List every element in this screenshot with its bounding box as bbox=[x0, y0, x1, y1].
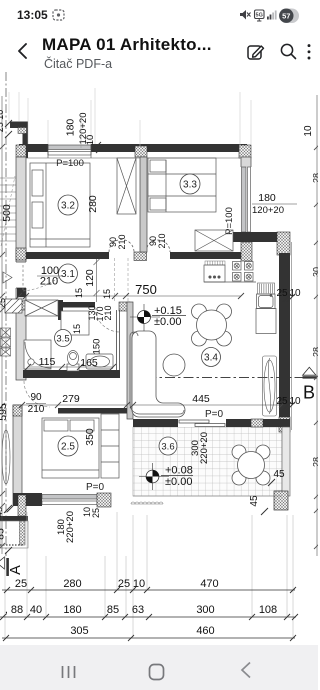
section marker A bbox=[0, 557, 24, 576]
terrace bottom scallop strip bbox=[131, 502, 163, 504]
top-left entry wall corner bbox=[10, 122, 28, 129]
left wall hatch mid bbox=[16, 248, 26, 260]
wall stub at wardrobe bbox=[58, 300, 63, 320]
kitchen dishwasher bbox=[204, 265, 225, 282]
porch dotted bottom bbox=[0, 544, 23, 546]
entry door arc bbox=[23, 266, 71, 291]
stair direction arrow bbox=[3, 272, 12, 283]
kitchen sink bbox=[257, 294, 276, 309]
terrace table and chairs bbox=[232, 445, 270, 485]
svg-text:3.5: 3.5 bbox=[56, 334, 69, 345]
terrace bottom edge bbox=[133, 495, 282, 497]
svg-text:45: 45 bbox=[273, 469, 285, 480]
dimension 25 10 kitchen wall bbox=[276, 288, 301, 302]
dimension 25 10 living wall bbox=[276, 396, 301, 410]
stair dashed diagonal bbox=[1, 176, 15, 246]
wardrobe room 3.3 bbox=[195, 230, 233, 251]
entry door leaf block bbox=[17, 288, 26, 297]
svg-text:108: 108 bbox=[259, 604, 277, 616]
room circle 3.6 bbox=[159, 437, 177, 455]
battery bbox=[279, 9, 299, 24]
terrace door sliding panels bbox=[178, 419, 226, 427]
svg-text:28: 28 bbox=[312, 347, 319, 357]
svg-text:P=0: P=0 bbox=[86, 482, 105, 493]
dark block 2.5 bottom left bbox=[24, 493, 40, 506]
wardrobe corridor bbox=[25, 300, 58, 316]
svg-text:B: B bbox=[303, 383, 315, 403]
room circle 3.3 bbox=[180, 174, 200, 194]
bed room 2.5 bbox=[42, 418, 99, 478]
hatch block right wall bottom bbox=[279, 417, 290, 432]
corridor vertical dim line bbox=[94, 259, 100, 302]
svg-text:210: 210 bbox=[103, 305, 113, 320]
section line A-A vertical bbox=[5, 72, 7, 556]
app bar bbox=[0, 28, 318, 70]
svg-text:A: A bbox=[8, 565, 24, 575]
door arc room 3.3 bbox=[146, 240, 170, 252]
bed room 3.3 bbox=[148, 158, 216, 212]
kitchen counter lower bbox=[256, 309, 276, 334]
hatch block top wall right corner bbox=[239, 145, 251, 158]
hatch block terrace top wall bbox=[251, 419, 263, 427]
hatch block terrace bottom right bbox=[274, 491, 288, 510]
hatch block 2.5 bottom corner bbox=[97, 493, 111, 507]
svg-text:300: 300 bbox=[196, 604, 214, 616]
left wall bottom hatch bbox=[18, 495, 26, 516]
svg-text:+0.08: +0.08 bbox=[165, 465, 193, 477]
svg-text:±0.00: ±0.00 bbox=[165, 476, 192, 488]
top extension lines bbox=[9, 88, 251, 146]
terrace 3.6 tiled floor bbox=[133, 427, 282, 496]
living room west wall bbox=[127, 302, 133, 419]
svg-text:28: 28 bbox=[312, 457, 319, 467]
svg-text:63: 63 bbox=[132, 604, 144, 616]
dimension 279 hall bbox=[19, 402, 130, 408]
dimension 115 165 bathroom bbox=[25, 364, 116, 370]
room 2.5 top wall bbox=[58, 408, 127, 414]
svg-text:180: 180 bbox=[65, 119, 77, 137]
shower bathroom bbox=[24, 340, 51, 369]
svg-text:57: 57 bbox=[282, 11, 290, 20]
level marker terrace bbox=[139, 463, 193, 490]
bathroom right wall bbox=[117, 310, 120, 370]
svg-text:3.3: 3.3 bbox=[183, 180, 197, 191]
svg-text:460: 460 bbox=[196, 625, 214, 637]
svg-text:10: 10 bbox=[133, 578, 145, 590]
room circle 3.2 bbox=[58, 195, 78, 215]
svg-text:120+20: 120+20 bbox=[252, 205, 284, 216]
svg-text:305: 305 bbox=[70, 625, 88, 637]
svg-text:10: 10 bbox=[303, 125, 314, 137]
level marker living room bbox=[130, 304, 186, 331]
couch living room bbox=[130, 331, 185, 417]
door opening room 3.2 bbox=[109, 251, 134, 260]
svg-text:, 88: , 88 bbox=[5, 604, 23, 616]
wardrobe room 2.5 bbox=[101, 414, 119, 478]
corridor opening dashed lines bbox=[115, 258, 129, 302]
hatch block between doors bbox=[134, 252, 147, 261]
washbasin bbox=[86, 354, 113, 369]
step hatch right of room 3.3 bbox=[241, 242, 252, 261]
svg-text:280: 280 bbox=[63, 578, 81, 590]
svg-text:120: 120 bbox=[84, 269, 96, 287]
mailbox squares bbox=[1, 328, 11, 356]
svg-text:470: 470 bbox=[200, 578, 218, 590]
room circle 3.1 bbox=[59, 264, 78, 283]
svg-text:10: 10 bbox=[85, 135, 96, 146]
dining table bbox=[192, 304, 232, 346]
bathroom bottom wall bbox=[23, 370, 120, 378]
svg-text:28: 28 bbox=[312, 173, 319, 183]
svg-text:45: 45 bbox=[249, 495, 260, 507]
room circle 3.5 bbox=[55, 330, 72, 347]
door arc room 3.2 bbox=[109, 240, 134, 252]
kitchen stove burners bbox=[233, 262, 254, 282]
svg-text:150: 150 bbox=[92, 339, 103, 355]
window room 3.2 in top wall bbox=[48, 144, 91, 158]
svg-text:3.6: 3.6 bbox=[161, 442, 174, 453]
svg-text:3.2: 3.2 bbox=[61, 201, 75, 212]
bottom extension lines bbox=[5, 512, 293, 637]
svg-text:85: 85 bbox=[107, 604, 119, 616]
left wall lower hatch top bbox=[13, 405, 22, 416]
kitchen counter edge bbox=[204, 281, 256, 283]
bedroom bottom wall bbox=[26, 252, 241, 259]
hatch block top wall middle bbox=[135, 146, 147, 157]
radiator plant right wall bbox=[263, 356, 277, 416]
kitchen sink drainer bbox=[258, 283, 275, 294]
door opening room 3.3 bbox=[146, 251, 170, 260]
svg-text:220+20: 220+20 bbox=[65, 511, 76, 543]
window room 2.5 bottom wall bbox=[42, 493, 97, 506]
svg-text:25: 25 bbox=[91, 508, 101, 518]
bottom dimension row 3 bbox=[2, 635, 296, 641]
svg-text:25 10: 25 10 bbox=[0, 110, 5, 133]
room circle 3.4 bbox=[202, 348, 221, 367]
hall door arc to living room bbox=[95, 307, 120, 332]
right edge dimension line bbox=[314, 95, 320, 556]
svg-text:P=100: P=100 bbox=[224, 207, 235, 235]
window room 3.3 right wall bbox=[240, 167, 252, 232]
wardrobe room 3.2 bbox=[117, 158, 136, 214]
bottom dimension row 2 bbox=[0, 614, 298, 620]
svg-text:210: 210 bbox=[28, 404, 45, 415]
status bar bbox=[0, 0, 318, 28]
dimension 45 terrace right bbox=[268, 469, 285, 486]
porch hatched strip bbox=[20, 521, 26, 545]
muted icon bbox=[240, 10, 251, 20]
hatch block kitchen top right corner bbox=[277, 232, 290, 255]
room circle 2.5 bbox=[58, 436, 78, 456]
svg-text:40: 40 bbox=[30, 604, 42, 616]
svg-text:210: 210 bbox=[117, 234, 127, 249]
left exterior wall bbox=[16, 157, 26, 380]
svg-text:210: 210 bbox=[40, 276, 58, 288]
kitchen top wall bbox=[233, 232, 290, 242]
washing machine bathroom bbox=[61, 311, 89, 335]
room 2.5 bottom wall bbox=[13, 493, 111, 506]
svg-text:15: 15 bbox=[72, 324, 82, 334]
left wall lower part bbox=[13, 405, 22, 505]
corridor bottom wall left part bbox=[58, 302, 95, 308]
bottom-left porch outline bbox=[0, 521, 28, 548]
svg-text:595: 595 bbox=[0, 403, 9, 421]
right wall living room bbox=[279, 253, 290, 430]
main top wall bbox=[19, 144, 247, 152]
svg-text:25: 25 bbox=[118, 578, 130, 590]
svg-text:90: 90 bbox=[30, 392, 42, 403]
svg-text:25: 25 bbox=[15, 578, 27, 590]
svg-text:5G: 5G bbox=[256, 13, 263, 19]
svg-text:180: 180 bbox=[258, 192, 276, 204]
navigation bar bbox=[0, 645, 318, 690]
side table circle bbox=[163, 354, 185, 376]
terrace top wall bbox=[133, 419, 290, 427]
signal bars bbox=[267, 11, 277, 20]
svg-text:P=100: P=100 bbox=[56, 158, 84, 169]
left margin plant ellipse bbox=[2, 430, 10, 484]
dimension 445 living bbox=[130, 402, 285, 408]
right wall room 3.3 bbox=[241, 157, 251, 235]
svg-text:±0.00: ±0.00 bbox=[154, 316, 181, 328]
dimension 750 corridor bbox=[16, 293, 244, 299]
svg-text:279: 279 bbox=[62, 393, 80, 405]
section marker B bbox=[303, 367, 318, 402]
svg-text:210: 210 bbox=[157, 233, 167, 248]
door arc room 2.5 bbox=[24, 381, 50, 407]
left wall entry door opening bbox=[15, 262, 27, 288]
staircase treads bbox=[0, 178, 16, 241]
entry door leaf bbox=[22, 265, 24, 291]
hatched ramp bar upper bbox=[5, 299, 22, 313]
dimension 45 terrace bottom rotated bbox=[249, 495, 268, 515]
svg-text:180: 180 bbox=[63, 604, 81, 616]
svg-text:280: 280 bbox=[87, 195, 99, 213]
svg-text:115: 115 bbox=[39, 356, 56, 368]
tick marks left bottom bbox=[4, 504, 15, 554]
bottom dimension row 1 bbox=[2, 587, 296, 593]
svg-text:25: 25 bbox=[276, 288, 288, 299]
kitchen drainer strip bbox=[205, 261, 225, 265]
svg-text:25: 25 bbox=[276, 396, 288, 407]
left outer dimension line bbox=[0, 96, 5, 554]
svg-text:165: 165 bbox=[80, 357, 98, 369]
wall between rooms 3.2 and 3.3 bbox=[140, 157, 147, 252]
right edge cropped labels bbox=[312, 173, 320, 467]
volte icon bbox=[255, 10, 265, 21]
svg-text:2.5: 2.5 bbox=[61, 442, 75, 453]
hatch block corridor wall right bbox=[119, 302, 130, 311]
bottom-left cap wall bbox=[0, 516, 28, 521]
svg-text:25: 25 bbox=[0, 298, 7, 308]
svg-text:30: 30 bbox=[312, 267, 319, 277]
svg-text:3.4: 3.4 bbox=[204, 353, 218, 364]
svg-text:445: 445 bbox=[192, 393, 210, 405]
left wall hatch at corridor bbox=[16, 301, 26, 310]
section line B-B horizontal bbox=[128, 377, 316, 379]
terrace right wall bbox=[282, 427, 290, 496]
svg-text:15: 15 bbox=[74, 288, 84, 298]
dimension 180 120+20 right of 3.3 bbox=[252, 192, 297, 216]
svg-text:350: 350 bbox=[84, 428, 96, 446]
svg-text:750: 750 bbox=[135, 282, 157, 297]
toilet bbox=[67, 351, 79, 372]
svg-text:220+20: 220+20 bbox=[199, 432, 210, 464]
svg-text:85: 85 bbox=[0, 528, 7, 540]
hatch block top wall left end bbox=[16, 145, 26, 157]
svg-text:3.1: 3.1 bbox=[61, 269, 75, 280]
bed room 3.2 bbox=[30, 163, 90, 247]
svg-text:500: 500 bbox=[1, 204, 13, 222]
svg-text:15: 15 bbox=[102, 289, 112, 299]
svg-text:P=0: P=0 bbox=[205, 409, 224, 420]
